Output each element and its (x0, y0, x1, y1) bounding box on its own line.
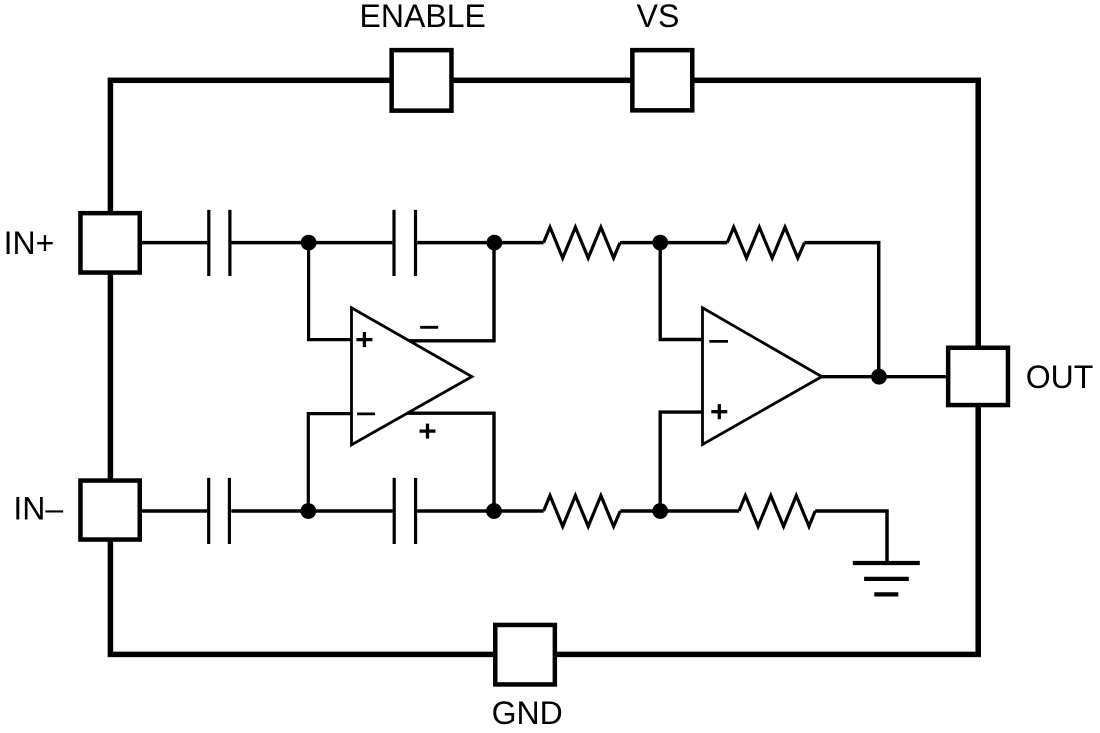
pin box ENABLE (392, 50, 452, 111)
capacitor C3 (394, 210, 416, 276)
wire IN- to C2 (142, 509, 207, 513)
resistor R1 (544, 227, 620, 258)
node D junction (300, 503, 316, 519)
pin box IN- (80, 481, 139, 540)
pin box OUT (948, 348, 1008, 405)
wire U1 out+ to node E (404, 413, 494, 511)
wire node C to U2 -input (660, 243, 706, 340)
svg-text:ENABLE: ENABLE (360, 0, 486, 34)
wire node F to U2 +input (660, 412, 706, 511)
svg-text:GND: GND (492, 695, 563, 731)
pin box GND (495, 625, 555, 685)
U1 out+ label (420, 424, 436, 439)
wire R1 to R2 through node C (620, 241, 727, 245)
node A junction (301, 235, 317, 251)
capacitor C4 (394, 478, 415, 544)
op-amp U2 (703, 308, 822, 445)
IC boundary (110, 80, 978, 654)
node F junction (652, 503, 668, 519)
U1 out- label (420, 326, 438, 329)
node E junction (486, 503, 502, 519)
wire IN+ to C1 (142, 241, 207, 245)
svg-text:OUT: OUT (1026, 359, 1094, 395)
U1 -input label (357, 412, 375, 415)
wire U1 out- to node B (404, 243, 494, 341)
pin box IN+ (80, 213, 139, 272)
wire R2 to output node (feedback corner) (805, 243, 879, 377)
wire C4 to R3 through node E (417, 509, 543, 513)
node C junction (652, 235, 668, 251)
svg-text:IN+: IN+ (4, 225, 55, 261)
capacitor C2 (209, 478, 230, 544)
wire C3 to R1 through node B (417, 241, 543, 245)
resistor R3 (544, 496, 621, 527)
node B junction (487, 235, 503, 251)
resistor R4 (739, 496, 815, 527)
wire node A to U1 +input (309, 243, 353, 340)
svg-text:VS: VS (637, 0, 680, 34)
wire node D to U1 -input (308, 414, 353, 511)
op-amp U1 (352, 308, 472, 445)
wire R4 to ground (815, 511, 887, 563)
output node junction (871, 369, 887, 385)
pin box VS (632, 50, 692, 110)
svg-text:IN–: IN– (13, 490, 63, 526)
U2 +input label (711, 404, 727, 419)
ground (853, 563, 920, 594)
U1 +input label (356, 332, 372, 347)
resistor R2 (727, 227, 804, 258)
U2 -input label (709, 340, 728, 343)
wire R3 to R4 through node F (620, 509, 739, 513)
wire U2 output to OUT (820, 375, 946, 378)
wire C2 to C4 through node D (231, 509, 392, 513)
wire C1 to C3 through node A (231, 241, 392, 245)
capacitor C1 (209, 210, 230, 276)
